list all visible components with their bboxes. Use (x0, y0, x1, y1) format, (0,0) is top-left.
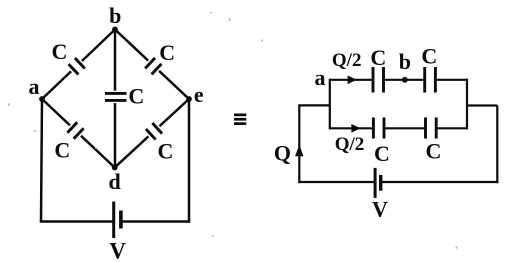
svg-text:C: C (159, 40, 175, 65)
wire outer right vertical (496, 106, 498, 184)
svg-text:C: C (421, 44, 437, 69)
arrow Q/2 top branch (348, 76, 357, 85)
RIGHT CIRCUIT (298, 79, 498, 183)
wire a-b (42, 30, 115, 100)
wire a-d (42, 99, 115, 168)
svg-text:Q/2: Q/2 (335, 134, 365, 155)
capacitor C (a-d diagonal) (64, 119, 87, 142)
svg-text:C: C (54, 138, 70, 163)
node e (186, 96, 192, 102)
wire b-e (115, 30, 189, 100)
wire left vertical below a (41, 99, 42, 222)
capacitor C (b-e diagonal) (142, 54, 165, 77)
wire right bus (466, 79, 468, 130)
node b (112, 27, 118, 33)
capacitor C (middle b-d) (103, 91, 128, 103)
battery V (left circuit) (114, 202, 121, 239)
wire right connector (467, 104, 497, 106)
arrow Q/2 bottom branch (351, 124, 360, 133)
wire right vertical below e (188, 99, 191, 223)
capacitor C4 bottom (426, 118, 437, 139)
node a (39, 96, 45, 102)
wire bottom left of battery (298, 181, 375, 183)
svg-text:b: b (399, 49, 411, 74)
capacitor C2 top (425, 67, 436, 93)
equivalence symbol (234, 114, 246, 126)
svg-text:V: V (372, 197, 388, 222)
svg-text:d: d (108, 169, 120, 194)
svg-text:C: C (128, 84, 144, 109)
node d (112, 165, 118, 171)
svg-text:e: e (194, 82, 204, 107)
wire top branch seg1 (330, 79, 373, 81)
wire b-d (114, 30, 117, 168)
wire outer left vertical (298, 105, 300, 183)
wire bottom right of battery (381, 181, 499, 183)
wire bottom left to battery (40, 220, 43, 221)
svg-text:C: C (426, 138, 442, 163)
wire left bus (329, 79, 331, 130)
svg-text:C: C (51, 39, 67, 64)
wire battery to bottom right (121, 220, 190, 223)
svg-text:C: C (374, 141, 390, 166)
capacitor C1 top (373, 67, 384, 93)
svg-text:Q: Q (274, 141, 291, 166)
wire d-e (115, 99, 189, 168)
wire bottom branch seg3 (436, 127, 467, 129)
wire top branch seg3 (435, 79, 467, 81)
wire top branch seg2 (384, 79, 425, 81)
svg-text:a: a (315, 65, 326, 90)
svg-text:a: a (29, 74, 40, 99)
wire bottom branch seg2 (384, 127, 426, 129)
svg-text:C: C (157, 139, 173, 164)
svg-text:C: C (370, 45, 386, 70)
capacitor C (a-b diagonal) (65, 55, 88, 78)
svg-text:Q/2: Q/2 (332, 50, 362, 71)
svg-text:b: b (109, 3, 121, 28)
arrow Q left vertical (295, 145, 303, 157)
node b (right) (402, 77, 408, 83)
scan specks (8, 12, 458, 249)
battery V (right circuit) (375, 168, 381, 198)
wire left connector (298, 104, 330, 106)
wire bottom branch seg1 (330, 127, 374, 129)
capacitor C3 bottom (373, 118, 384, 139)
capacitor C (d-e diagonal) (142, 120, 165, 143)
svg-text:V: V (109, 239, 126, 262)
